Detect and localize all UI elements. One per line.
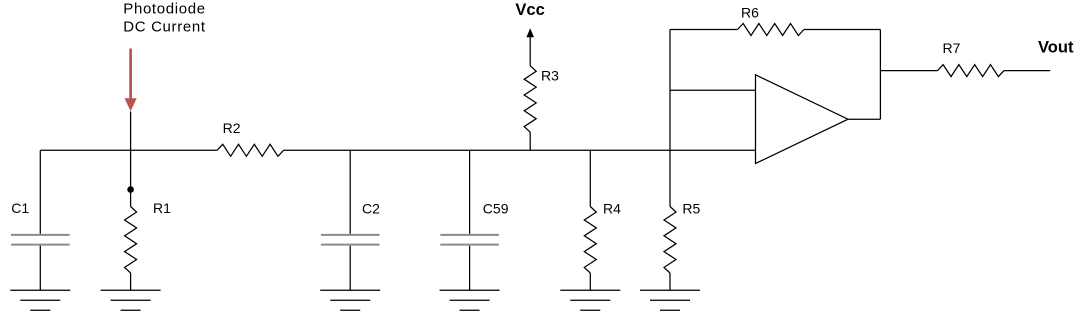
wire op-amp output to riser	[848, 118, 880, 120]
svg-text:Photodiode: Photodiode	[123, 1, 205, 18]
resistor R5	[664, 150, 701, 290]
svg-text:Vcc: Vcc	[515, 1, 544, 19]
ground (R4)	[560, 290, 620, 310]
svg-text:DC Current: DC Current	[123, 19, 206, 36]
wire photodiode arrow to node A	[130, 112, 132, 190]
svg-text:C59: C59	[483, 201, 509, 217]
ground (C2)	[320, 290, 380, 310]
resistor R7	[938, 40, 1005, 77]
svg-text:R6: R6	[741, 5, 759, 21]
wire R6 to output riser	[804, 29, 880, 31]
Vcc supply arrow	[526, 28, 534, 65]
wire node to R6 (top left segment)	[670, 29, 738, 31]
resistor R2	[217, 120, 284, 156]
label Photodiode DC Current	[123, 1, 206, 36]
wire output tap to R7	[880, 70, 937, 72]
wire main node: R2 to op-amp inverting input	[284, 149, 756, 151]
resistor R6	[738, 5, 805, 36]
svg-text:C2: C2	[362, 201, 380, 217]
wire R7 to Vout	[1004, 70, 1050, 72]
svg-text:R5: R5	[682, 201, 700, 217]
capacitor C59	[440, 150, 508, 290]
capacitor C1	[11, 150, 70, 290]
op-amp U1	[756, 75, 849, 164]
wire output riser (R6 to output)	[879, 30, 881, 120]
resistor R3	[524, 66, 559, 151]
ground (R1)	[101, 290, 161, 310]
svg-text:C1: C1	[11, 200, 29, 216]
ground (C1)	[10, 290, 70, 310]
photodiode current arrow	[125, 49, 137, 112]
resistor R1	[125, 190, 172, 291]
svg-text:R1: R1	[153, 200, 171, 216]
ground (R5)	[640, 290, 700, 310]
wire op-amp non-inverting input stub	[670, 89, 756, 91]
svg-text:R2: R2	[223, 120, 241, 136]
resistor R4	[584, 150, 621, 290]
junction dot node A	[127, 186, 134, 193]
ground (C59)	[440, 290, 500, 310]
capacitor C2	[321, 150, 380, 290]
wire main node: C1 corner to R2	[40, 149, 217, 151]
svg-text:R7: R7	[943, 40, 961, 56]
svg-text:Vout: Vout	[1038, 39, 1074, 57]
svg-text:R3: R3	[541, 68, 559, 84]
wire feedback riser: node to R6	[669, 30, 671, 151]
svg-text:R4: R4	[603, 201, 621, 217]
